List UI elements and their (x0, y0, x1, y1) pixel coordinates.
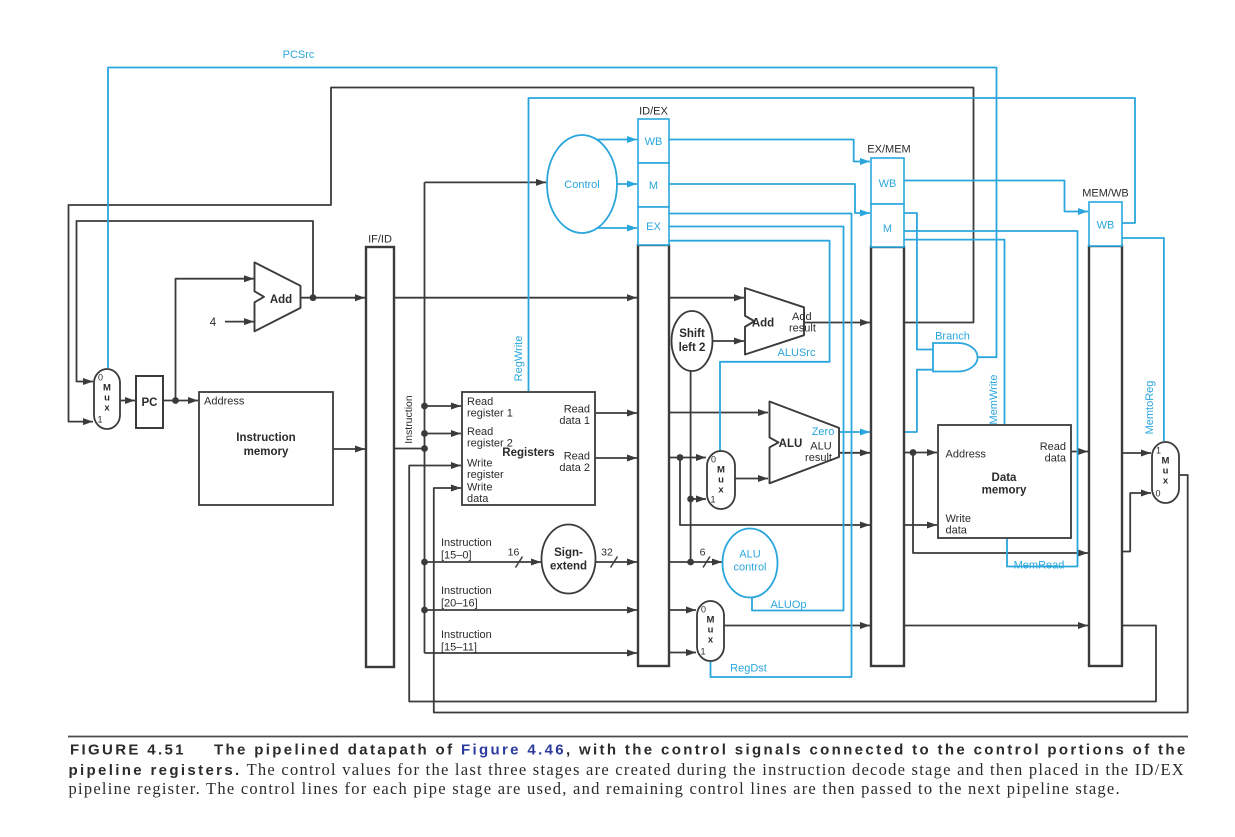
wire M control ID/EX to EX/MEM (669, 184, 870, 213)
svg-text:memory: memory (244, 446, 289, 458)
wire PC+4 from IF/ID to ID/EX (394, 297, 637, 299)
wire write data from EX/MEM to data memory (904, 524, 937, 526)
wire PC+4 from ID/EX to branch Add (669, 297, 744, 299)
svg-text:Instruction: Instruction (403, 395, 415, 444)
svg-text:register: register (467, 469, 504, 481)
wire PC to instruction memory Address (163, 400, 198, 402)
wire MemtoReg from MEM/WB to mux (1122, 238, 1164, 441)
svg-text:EX/MEM: EX/MEM (867, 144, 910, 156)
svg-text:Branch: Branch (935, 331, 970, 343)
wire write data from MemtoReg mux back to Registers (434, 475, 1188, 713)
wire ALUSrc mux to ALU (735, 478, 768, 480)
wire Read data from MEM/WB to MemtoReg mux input 1 (1122, 452, 1151, 454)
svg-text:x: x (718, 485, 724, 496)
and-gate branch (933, 343, 978, 372)
wire instruction to Control (425, 181, 547, 183)
slash 16-bit (516, 557, 523, 568)
svg-text:PCSrc: PCSrc (283, 49, 315, 61)
wire RegDst mux output to EX/MEM (724, 625, 870, 627)
svg-text:data 2: data 2 (559, 462, 590, 474)
svg-text:FIGURE 4.51The pipelined datap: FIGURE 4.51The pipelined datapath of Fig… (70, 742, 1188, 759)
box ID/EX WB (638, 119, 669, 163)
svg-text:Address: Address (204, 396, 245, 408)
svg-text:0: 0 (98, 373, 103, 383)
svg-text:Sign-: Sign- (554, 547, 583, 559)
svg-text:data: data (1045, 453, 1067, 465)
wire branch Add result to EX/MEM (804, 322, 870, 324)
block data memory (938, 425, 1071, 538)
svg-text:MEM/WB: MEM/WB (1082, 188, 1128, 200)
junction sign-extend to shift (687, 559, 694, 566)
svg-text:Read: Read (564, 404, 590, 416)
svg-text:Address: Address (946, 449, 987, 461)
junction read data 2 branch (677, 454, 684, 461)
svg-text:[15–0]: [15–0] (441, 550, 472, 562)
svg-text:data 1: data 1 (559, 415, 590, 427)
wire instruction out of IF/ID (394, 448, 425, 450)
wire branch target from EX/MEM to PC mux input 1 (69, 88, 974, 422)
svg-text:Read: Read (467, 426, 493, 438)
svg-text:RegDst: RegDst (730, 663, 767, 675)
wire Control to ID/EX EX (597, 227, 637, 229)
box ID/EX M (638, 163, 669, 207)
svg-text:Instruction: Instruction (441, 537, 492, 549)
svg-text:Data: Data (992, 472, 1018, 484)
svg-text:WB: WB (879, 178, 897, 190)
svg-text:Add: Add (270, 294, 292, 306)
svg-text:0: 0 (701, 605, 706, 615)
svg-text:Instruction: Instruction (441, 629, 492, 641)
wire write register number EX/MEM to MEM/WB (904, 625, 1088, 627)
svg-text:M: M (649, 180, 658, 192)
junction sign-extend to ALUSrc mux (687, 496, 694, 503)
svg-text:0: 0 (711, 455, 716, 465)
wire Control to ID/EX WB (597, 139, 637, 141)
svg-text:ID/EX: ID/EX (639, 106, 668, 118)
junction Add output PC+4 (310, 294, 317, 301)
wire write register number from MEM/WB back to Registers (409, 466, 1156, 702)
svg-text:1: 1 (1156, 446, 1161, 456)
svg-text:M: M (883, 223, 892, 235)
svg-text:data: data (467, 493, 489, 505)
wire instruction bus vertical (424, 182, 426, 653)
wire instruction [15-0] to Sign-extend (425, 561, 542, 563)
svg-text:Instruction: Instruction (236, 432, 295, 444)
svg-text:Add: Add (792, 311, 812, 323)
svg-text:RegWrite: RegWrite (513, 336, 525, 382)
wire Shift left 2 to branch Add (712, 340, 744, 342)
slash 6-bit (703, 557, 710, 568)
mux PC source (PCSrc mux) (94, 369, 120, 429)
adder Add (PC+4) (255, 262, 301, 331)
wire constant 4 to Add (225, 321, 254, 323)
wire instruction [20-16] to RegDst mux input 0 (669, 609, 696, 611)
wire instruction [15-11] to RegDst mux input 1 (669, 652, 696, 654)
svg-text:memory: memory (982, 485, 1027, 497)
svg-text:PC: PC (142, 397, 158, 409)
wire Read data 2 from ID/EX to ALUSrc mux (669, 457, 706, 459)
svg-text:Add: Add (752, 318, 774, 330)
wire Zero flag EX/MEM to AND gate (904, 370, 933, 432)
wire PC value up to Add (176, 279, 255, 401)
wire Read data 2 down to EX/MEM write data (680, 458, 870, 526)
wire ALUSrc control signal (669, 241, 830, 452)
svg-text:x: x (1163, 476, 1169, 487)
mux ALUSrc (707, 451, 735, 509)
wire instruction to Read register 2 (425, 433, 462, 435)
svg-text:register 1: register 1 (467, 408, 513, 420)
svg-text:1: 1 (97, 415, 102, 425)
svg-text:Registers: Registers (502, 447, 554, 459)
wire PCSrc from AND gate to PC mux (108, 68, 997, 369)
wire instruction memory output to IF/ID (333, 448, 365, 450)
caption rule (68, 736, 1188, 738)
junction ALU result to address and MEM/WB (910, 449, 917, 456)
svg-text:x: x (104, 403, 110, 414)
svg-text:32: 32 (601, 547, 613, 559)
svg-text:[20–16]: [20–16] (441, 598, 478, 610)
svg-text:Read: Read (564, 451, 590, 463)
svg-text:left 2: left 2 (679, 342, 706, 354)
wire sign-extended value to ALUSrc mux input 1 (691, 498, 706, 500)
svg-text:x: x (708, 635, 714, 646)
svg-text:data: data (946, 525, 968, 537)
svg-text:IF/ID: IF/ID (368, 234, 392, 246)
svg-text:MemRead: MemRead (1014, 560, 1065, 572)
junction PC output (172, 397, 179, 404)
wire Sign-extend output to ID/EX (595, 561, 637, 563)
svg-text:Zero: Zero (812, 426, 835, 438)
svg-text:1: 1 (700, 647, 705, 657)
block Registers (462, 392, 595, 505)
wire Add output PC+4 to IF/ID (301, 297, 366, 299)
svg-text:Write: Write (467, 482, 492, 494)
svg-text:control: control (733, 562, 766, 574)
svg-text:WB: WB (645, 136, 663, 148)
oval ALU control (723, 529, 778, 598)
wire sign-extended value to ALU control (669, 561, 722, 563)
wire WB control ID/EX to EX/MEM (669, 140, 870, 162)
svg-text:16: 16 (508, 547, 520, 559)
wire instruction [15-11] to ID/EX (425, 652, 638, 654)
svg-text:Control: Control (564, 179, 599, 191)
adder Add (branch target) (745, 288, 804, 355)
mux MemtoReg (1152, 442, 1179, 503)
svg-text:0: 0 (1155, 489, 1160, 499)
svg-text:ALUSrc: ALUSrc (778, 347, 816, 359)
register ID/EX (638, 245, 669, 666)
junction instruction bus read register 2 (421, 430, 428, 437)
svg-text:ALUOp: ALUOp (770, 599, 806, 611)
register IF/ID (366, 247, 394, 667)
svg-text:extend: extend (550, 561, 587, 573)
svg-text:MemtoReg: MemtoReg (1144, 381, 1156, 435)
alu main ALU (770, 402, 840, 484)
box EX/MEM WB (871, 158, 904, 204)
svg-text:Write: Write (467, 458, 492, 470)
wire Control to ID/EX M (617, 183, 637, 185)
svg-text:result: result (789, 323, 816, 335)
mux RegDst (697, 601, 724, 661)
svg-text:Read: Read (1040, 441, 1066, 453)
svg-text:Read: Read (467, 396, 493, 408)
box EX/MEM M (871, 204, 904, 247)
wire ALU result from EX/MEM to data memory Address (904, 452, 937, 454)
box ID/EX EX (638, 207, 669, 245)
svg-text:Write: Write (946, 513, 971, 525)
svg-text:[15–11]: [15–11] (441, 642, 477, 654)
wire sign-extended value up to Shift left 2 (690, 371, 692, 562)
block instruction memory (199, 392, 333, 505)
oval Sign-extend (542, 525, 596, 594)
svg-text:4: 4 (210, 317, 217, 329)
svg-text:WB: WB (1097, 220, 1115, 232)
wire ALU result from MEM/WB to MemtoReg mux input 0 (1122, 493, 1151, 552)
wire PC mux to PC (120, 400, 135, 402)
oval Shift left 2 (672, 311, 713, 371)
register MEM/WB (1089, 246, 1122, 666)
junction instruction bus [20-16] (421, 607, 428, 614)
svg-text:pipeline register. The control: pipeline register. The control lines for… (69, 779, 1121, 798)
svg-text:Shift: Shift (679, 328, 705, 340)
svg-text:6: 6 (700, 547, 706, 559)
wire Branch control to AND gate (904, 213, 933, 350)
svg-text:result: result (805, 452, 832, 464)
oval Control (547, 135, 617, 233)
register EX/MEM (871, 247, 904, 666)
wire PC+4 loop to PC mux input 0 (77, 221, 314, 382)
wire ALU result to EX/MEM (839, 452, 870, 454)
junction instruction bus main (421, 445, 428, 452)
svg-text:ALU: ALU (739, 549, 760, 561)
wire ALUOp control signal (669, 227, 844, 611)
svg-text:ALU: ALU (810, 441, 831, 453)
wire data memory Read data to MEM/WB (1071, 451, 1088, 453)
wire RegDst control signal (669, 214, 852, 678)
svg-text:Instruction: Instruction (441, 585, 492, 597)
wire ALU result down to MEM/WB (913, 453, 1088, 554)
junction instruction bus read register 1 (421, 403, 428, 410)
svg-text:1: 1 (710, 495, 715, 505)
svg-text:EX: EX (646, 221, 661, 233)
wire Zero flag ALU to EX/MEM (839, 431, 870, 433)
wire MemWrite control to data memory (904, 240, 1005, 424)
wire WB control EX/MEM to MEM/WB (904, 181, 1088, 212)
register PC (136, 376, 163, 428)
junction instruction bus [15-0] (421, 559, 428, 566)
wire instruction [20-16] to ID/EX (425, 609, 638, 611)
wire Read data 1 from ID/EX to ALU (669, 412, 768, 414)
wire instruction to Read register 1 (425, 405, 462, 407)
box MEM/WB WB (1089, 202, 1122, 246)
svg-text:MemWrite: MemWrite (988, 375, 1000, 425)
wire Read data 2 to ID/EX (595, 457, 637, 459)
wire Read data 1 to ID/EX (595, 412, 637, 414)
slash 32-bit (611, 557, 618, 568)
svg-text:pipeline registers. The contro: pipeline registers. The control values f… (69, 760, 1185, 779)
wire MemRead control to data memory (904, 231, 1078, 567)
wire RegWrite from MEM/WB to Registers (529, 98, 1136, 391)
svg-text:ALU: ALU (779, 438, 803, 450)
